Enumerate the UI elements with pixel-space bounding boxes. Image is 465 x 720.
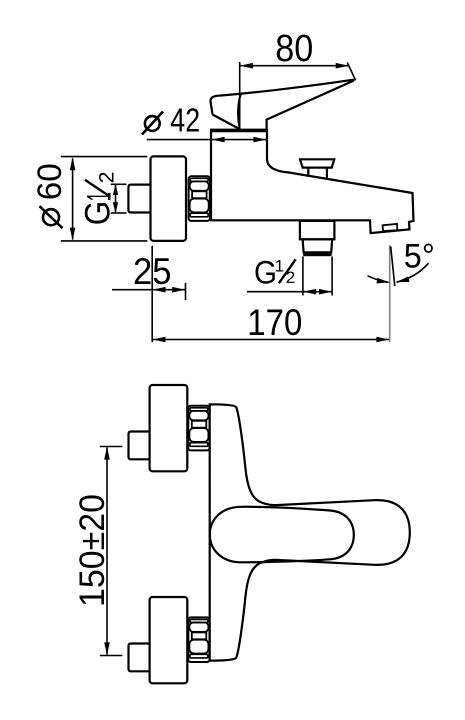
bottom wall flange (front view) — [150, 597, 188, 683]
top wall flange (front view) — [150, 385, 188, 471]
aerator insert (side view) — [383, 224, 398, 231]
extension line flange right (short) — [185, 283, 187, 300]
dimension dia 42 (cartridge housing) — [145, 116, 160, 131]
faucet body outline (front view) — [210, 404, 410, 660]
supply nipple G1/2 (side view) — [128, 185, 150, 213]
hex nut (side view) — [189, 176, 210, 221]
extension line flange left / 170 left — [151, 246, 153, 342]
top hex nut (front view) — [188, 406, 209, 451]
gray reference line (aerator axis extension) — [389, 245, 391, 342]
label G1/2 (wall connection, rotated) — [79, 172, 119, 226]
svg-text:80: 80 — [275, 28, 313, 70]
svg-text:170: 170 — [247, 302, 302, 343]
svg-text:60: 60 — [31, 163, 69, 200]
tilted aerator axis line — [391, 247, 395, 287]
svg-text:5°: 5° — [404, 238, 435, 276]
svg-text:1: 1 — [80, 192, 118, 201]
dimension dia 60 (flange) — [31, 163, 69, 228]
handle underside diagonal — [213, 115, 241, 130]
G1/2 outlet dimension — [247, 291, 332, 293]
svg-text:150±20: 150±20 — [73, 494, 112, 607]
label G1/2 (shower outlet) — [254, 255, 296, 291]
body top edge (thick cartridge cover line) — [210, 129, 268, 133]
svg-text:G: G — [254, 255, 277, 291]
angle arc right segment — [397, 263, 429, 282]
svg-text:42: 42 — [170, 102, 200, 139]
wall flange (side view) — [151, 156, 187, 241]
outlet thread black band — [303, 252, 331, 257]
dimension 150 +/- 20 (connection centers) — [73, 494, 112, 607]
bottom hex nut (front view) — [188, 617, 209, 662]
angle arc left segment — [368, 276, 389, 283]
lever handle (front view, inner shape) — [210, 507, 354, 563]
top supply nipple (front view) — [129, 432, 150, 460]
svg-text:2: 2 — [95, 172, 118, 184]
handle front crease — [238, 94, 241, 129]
faucet body with spout (side view) — [211, 130, 414, 233]
svg-text:1: 1 — [275, 256, 284, 275]
bottom supply nipple (front view) — [129, 644, 150, 672]
diverter knob (side view) — [300, 159, 334, 167]
single lever handle (side view) — [210, 80, 353, 130]
shower outlet (side view, bottom) — [300, 221, 335, 239]
svg-text:2: 2 — [286, 268, 295, 287]
G1/2 nipple dimension (small, left) — [115, 185, 117, 212]
